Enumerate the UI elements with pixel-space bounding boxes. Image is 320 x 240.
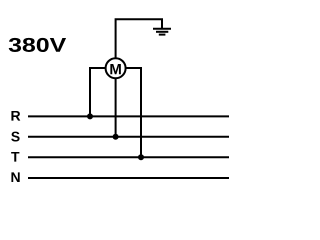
junction dot on S: [113, 134, 119, 140]
label 380V: [9, 38, 66, 52]
wire motor right to T: [126, 68, 141, 157]
motor M1 letter: [110, 64, 120, 74]
ground symbol: [153, 29, 171, 35]
wire bus R: [28, 115, 229, 117]
node R label: [11, 111, 20, 121]
wire bus N: [28, 177, 229, 179]
wire motor left to R: [90, 68, 106, 116]
junction dot on T: [138, 154, 144, 160]
motor M1 circle: [106, 58, 126, 78]
wire bus S: [28, 136, 229, 138]
node S label: [11, 132, 19, 142]
junction dot on R: [87, 113, 93, 119]
wire motor bottom to S: [115, 79, 117, 137]
wire motor top to ground: [116, 19, 162, 57]
node N label: [11, 172, 19, 182]
wire bus T: [28, 156, 229, 158]
node T label: [11, 152, 19, 162]
